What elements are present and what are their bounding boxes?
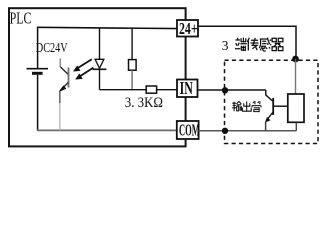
wire emitter to COM sensor: [265, 122, 267, 131]
transistor Q1 phototransistor: [59, 67, 68, 92]
glyph qi: [272, 38, 283, 50]
svg-text:DC24V: DC24V: [36, 40, 68, 56]
transistor phototransistor collector wire: [59, 58, 61, 67]
node junction IN: [222, 87, 228, 93]
transistor Q2 output collector: [266, 90, 273, 101]
wire 24+ to sensor: [198, 26, 296, 59]
wire IN to sensor: [198, 89, 266, 91]
glyph chu: [242, 101, 251, 111]
wire emitter to COM: [59, 91, 61, 103]
light arrow 2: [76, 68, 94, 80]
label output transistor: [232, 101, 261, 111]
glyph guan: [252, 101, 261, 111]
wire COM bus inside PLC: [37, 129, 177, 131]
resistor R1 top wire: [131, 28, 133, 59]
battery B1 DC24V: [27, 69, 49, 74]
sensor internal circuit box: [288, 94, 304, 122]
transistor Q2 bar: [272, 98, 274, 115]
resistor R2 3.3K horizontal: [146, 86, 156, 93]
svg-text:PLC: PLC: [10, 10, 32, 28]
wire diode to IN bus: [99, 70, 101, 90]
wire top inner: [37, 27, 177, 28]
terminal IN: [177, 79, 198, 99]
node junction COM: [222, 128, 228, 134]
terminal COM: [177, 120, 200, 139]
svg-text:3. 3KΩ: 3. 3KΩ: [125, 95, 163, 111]
glyph shu: [232, 101, 241, 111]
light arrow 1: [73, 59, 91, 71]
glyph chuan: [247, 38, 258, 51]
wire COM to sensor: [199, 130, 297, 132]
wire node to circuit box: [295, 59, 297, 94]
wire box bottom to COM: [295, 122, 297, 131]
node junction top: [292, 56, 299, 63]
terminal 24+: [177, 20, 198, 38]
svg-text:COM: COM: [179, 120, 200, 139]
PLC box: [9, 8, 186, 146]
transistor Q2 emitter: [265, 113, 272, 123]
diode D1 LED anode wire: [99, 28, 101, 60]
svg-text:3: 3: [222, 38, 229, 53]
glyph gan: [259, 38, 271, 51]
wire IN bus inside PLC: [100, 89, 178, 91]
glyph duan: [235, 38, 247, 51]
transistor Q2 base lead: [273, 105, 288, 107]
sensor box dashed: [225, 60, 319, 143]
label 3-wire sensor title: [222, 38, 283, 54]
wire battery to COM: [37, 75, 39, 131]
wire battery left: [37, 27, 39, 68]
resistor R1 vertical: [129, 60, 137, 71]
wire R1 bottom: [131, 70, 133, 90]
svg-text:24+: 24+: [179, 20, 198, 38]
diode D1: [93, 59, 107, 69]
svg-text:IN: IN: [180, 79, 193, 99]
